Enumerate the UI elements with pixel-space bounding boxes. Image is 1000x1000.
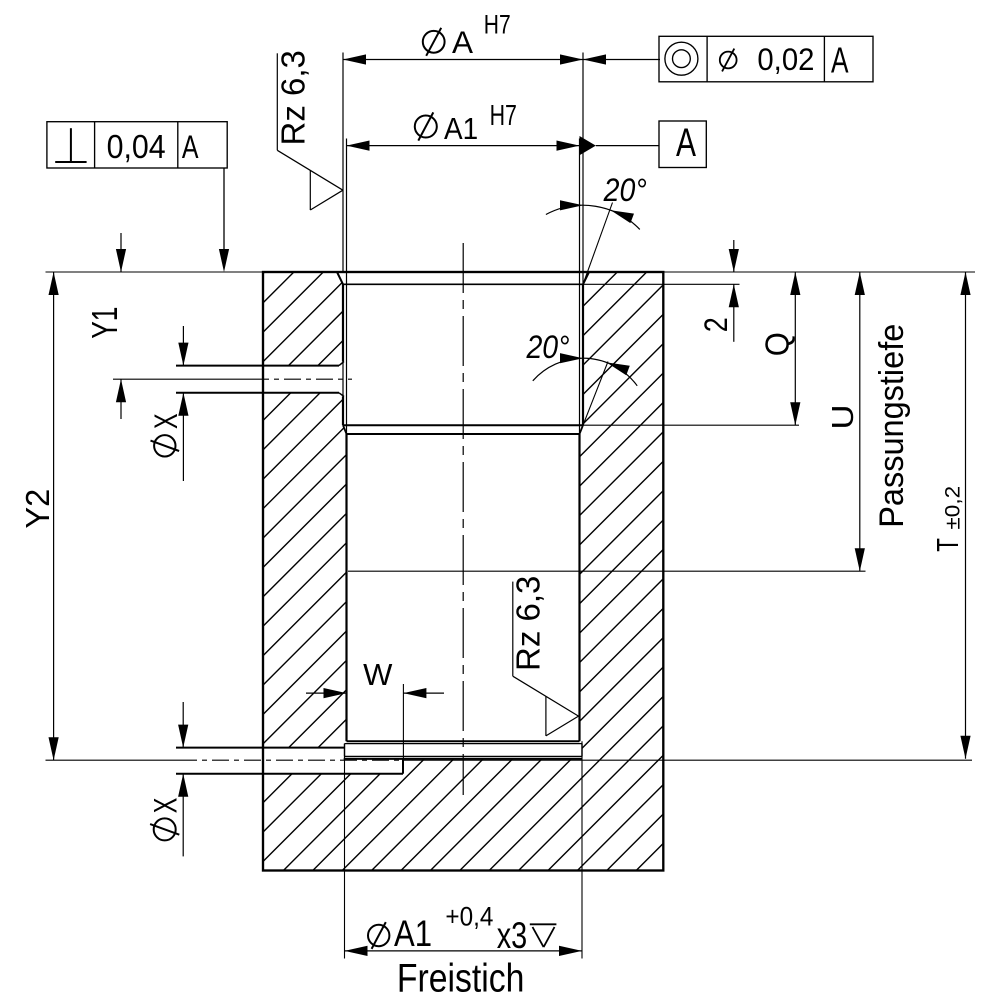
part outline block: [263, 272, 663, 871]
svg-text:Q: Q: [758, 332, 795, 356]
svg-text:X: X: [148, 413, 183, 429]
lower cross-hole cavity: [263, 748, 403, 774]
concentricity frame: [659, 36, 873, 82]
mouth chamfer circle edge: [343, 283, 583, 285]
svg-text:A: A: [831, 39, 849, 80]
upper cross-hole bottom edge: [176, 392, 339, 394]
dimension U: [859, 272, 861, 571]
svg-text:H7: H7: [484, 10, 511, 40]
svg-text:Freistich: Freistich: [397, 956, 525, 1000]
svg-text:A1: A1: [394, 914, 432, 955]
perpendicularity symbol: [70, 128, 72, 162]
dimension phiA H7: [343, 59, 583, 61]
W extension line: [402, 684, 404, 758]
dimension phiA1 H7: [347, 145, 580, 147]
bore cavity: [337, 272, 589, 759]
upper 20deg chamfer extension line: [583, 203, 613, 285]
undercut groove left wall: [344, 744, 346, 757]
surface symbol Rz 6,3 lower: [512, 582, 514, 677]
perpendicularity leader: [223, 168, 225, 251]
dimension Y1: [120, 233, 122, 272]
svg-text:W: W: [363, 657, 393, 692]
floor level extension line right: [412, 759, 972, 761]
extension line phiA right: [582, 53, 584, 285]
dimension T: [965, 272, 967, 759]
svg-text:T: T: [930, 538, 964, 552]
chamfer depth extension line: [583, 283, 740, 285]
svg-text:Y1: Y1: [84, 307, 125, 339]
svg-text:Rz 6,3: Rz 6,3: [510, 576, 547, 671]
undercut groove lower circle: [345, 755, 583, 757]
depth symbol: [530, 923, 557, 925]
dimension W: [306, 692, 347, 694]
svg-text:20°: 20°: [603, 174, 647, 209]
mouth chamfer edges: [337, 272, 343, 284]
dimension 2: [733, 240, 735, 272]
dimension phiX upper: [182, 326, 184, 366]
svg-text:+0,4: +0,4: [445, 902, 493, 931]
svg-text:20°: 20°: [526, 331, 570, 366]
bore A left wall: [342, 284, 344, 361]
upper cross-hole axis: [113, 378, 252, 380]
top face extension right: [663, 271, 975, 273]
lower 20deg chamfer extension line: [583, 362, 608, 426]
top face extension left: [46, 271, 264, 273]
upper 20deg arc: [546, 205, 640, 229]
svg-text:A1: A1: [444, 112, 478, 147]
dimension phiX lower: [182, 702, 184, 748]
dimension Q: [794, 272, 796, 425]
extension line phiA left: [342, 53, 344, 273]
datum A box: [659, 121, 706, 168]
svg-text:U: U: [825, 404, 860, 429]
part section hatch: [263, 272, 663, 871]
step chamfer edges: [343, 425, 347, 434]
extension line phiA1 left: [346, 139, 348, 435]
svg-text:A: A: [182, 130, 199, 166]
bore floor edge: [344, 758, 583, 760]
lower 20deg arc: [533, 358, 637, 386]
datum triangle and leader: [580, 136, 596, 155]
svg-text:x3: x3: [497, 916, 527, 957]
bore A right wall: [582, 284, 584, 425]
lower cross-hole bottom edge: [176, 773, 403, 775]
dimension Y2: [53, 272, 55, 760]
undercut groove top circle: [347, 740, 580, 742]
svg-text:Y2: Y2: [19, 489, 57, 529]
slot end wall: [402, 759, 404, 774]
surface symbol Rz 6,3 upper: [276, 53, 278, 150]
undercut extension line right: [581, 741, 583, 958]
svg-text:Rz 6,3: Rz 6,3: [275, 50, 312, 145]
dimension freistich: [345, 950, 583, 952]
svg-text:±0,2: ±0,2: [940, 486, 964, 530]
U depth line: [348, 570, 866, 572]
svg-text:Passungstiefe: Passungstiefe: [873, 324, 911, 528]
center axis: [462, 243, 464, 795]
svg-text:A: A: [676, 121, 696, 165]
upper cross-hole cavity: [263, 362, 344, 397]
concentricity leader: [583, 59, 660, 61]
undercut groove upper circle 2: [345, 743, 583, 745]
svg-text:0,02: 0,02: [757, 42, 814, 77]
step extension line right: [583, 424, 799, 426]
bore A1 left wall: [345, 434, 347, 741]
floor level extension line left: [46, 759, 181, 761]
upper cross-hole top edge: [176, 365, 339, 367]
step circle A1: [347, 433, 580, 435]
svg-text:0,04: 0,04: [107, 128, 166, 165]
lower cross-hole axis: [180, 759, 412, 761]
bore A1 right wall: [578, 434, 580, 741]
undercut groove right wall: [581, 744, 583, 757]
svg-text:X: X: [148, 797, 183, 813]
perpendicularity frame: [47, 122, 227, 168]
svg-text:A: A: [452, 24, 473, 60]
undercut extension line left: [344, 744, 346, 959]
extension line phiA1 right: [579, 139, 581, 435]
step circle A: [343, 424, 583, 426]
svg-text:2: 2: [699, 317, 735, 332]
lower cross-hole top edge: [176, 747, 345, 749]
svg-text:H7: H7: [490, 100, 517, 132]
